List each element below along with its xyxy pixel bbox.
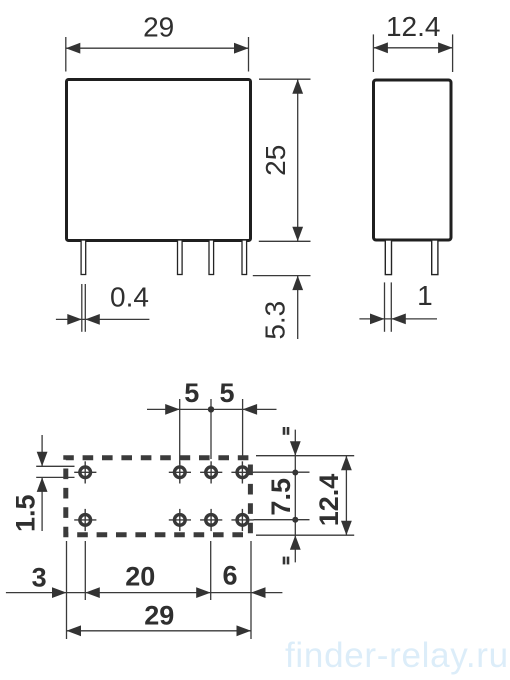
svg-text:5: 5 [219,378,234,408]
dimension 5.3 pin length (front view) [253,276,311,340]
bottom extension lines (bottom view) [67,541,252,639]
bottom pin r2c4 [231,509,253,531]
svg-text:1.5: 1.5 [11,494,41,532]
svg-text:3: 3 [32,562,47,592]
bottom pin r1c3 [200,461,222,483]
watermark finder-relay.ru [285,636,509,675]
svg-text:12.4: 12.4 [386,11,441,42]
svg-text:29: 29 [144,600,174,630]
svg-text:12.4: 12.4 [314,474,344,527]
bottom view outline (dashed) [66,458,251,535]
dimension 1.5 hole diameter (bottom view) [11,435,75,532]
dimension 0.4 pin thickness (front view) [56,282,149,332]
bottom pin r1c2 [169,461,191,483]
front pin 3 [209,240,214,275]
dimension 12.4 overall width (bottom view) [314,456,352,536]
svg-text:25: 25 [260,145,291,176]
dimension 12.4 body depth (side view) [373,11,452,72]
dimension 7.5 row pitch (bottom view) [266,430,301,563]
dimension 29 overall length (bottom view) [67,600,252,636]
svg-text:7.5: 7.5 [266,478,296,516]
svg-text:6: 6 [222,560,237,590]
dimension 29 body width (front view) [66,11,249,71]
svg-text:1: 1 [417,280,433,311]
svg-text:5: 5 [184,378,199,408]
dimension 5 5 pin pitch (bottom view) [147,378,277,464]
bottom pin r1c4 [231,461,253,483]
front view relay body [67,80,251,241]
extension lines right (bottom view) [254,456,355,536]
bottom pin r1c1 [74,461,96,483]
bottom pin r2c3 [200,509,222,531]
svg-text:29: 29 [143,11,174,42]
front pin 1 [81,240,86,275]
bottom pin r2c1 [74,509,96,531]
front pin 2 [178,240,183,275]
dimension chain 3 20 6 (bottom view) [6,560,283,598]
svg-text:0.4: 0.4 [110,282,149,313]
front pin 4 [242,240,247,275]
equal mark top (bottom view) [284,427,288,435]
bottom pin r2c2 [169,509,191,531]
svg-text:5.3: 5.3 [260,301,291,340]
dimension 25 body height (front view) [259,79,311,241]
svg-text:20: 20 [125,562,155,592]
side pin 1 [385,240,391,275]
svg-text:finder-relay.ru: finder-relay.ru [285,636,509,675]
equal mark bottom (bottom view) [284,557,288,565]
side pin 2 [432,240,438,275]
side view relay body [374,80,452,240]
dimension 1 pin width (side view) [359,280,437,332]
